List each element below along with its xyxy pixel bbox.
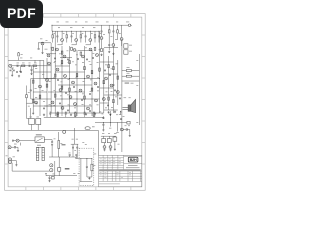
svg-text:B2H: B2H — [130, 158, 137, 162]
